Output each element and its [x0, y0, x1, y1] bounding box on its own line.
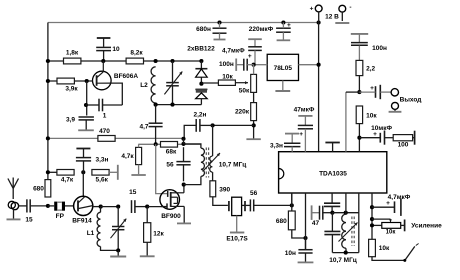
node 470 row at rail: [46, 136, 50, 140]
IF transformer tuning arrow: [203, 153, 220, 172]
ground under 12к: [140, 242, 155, 256]
resistor 2,2: [356, 60, 363, 75]
svg-text:3,9: 3,9: [66, 117, 75, 124]
IF transformer primary winding: [201, 148, 205, 176]
capacitor 56 feedback: [166, 147, 190, 181]
wire gate1 to BF900: [147, 206, 167, 208]
svg-text:10к: 10к: [386, 229, 396, 235]
node drain junction: [182, 183, 186, 187]
label 220к: [235, 108, 250, 115]
svg-text:220к: 220к: [235, 108, 250, 115]
label 3,9к: [65, 86, 78, 93]
svg-text:L2: L2: [140, 82, 148, 89]
wire input row: [18, 205, 27, 207]
ground of E10,7S: [230, 216, 244, 233]
svg-text:4,7к: 4,7к: [61, 177, 74, 184]
wire BF914 collector up: [82, 172, 84, 196]
svg-text:BF914: BF914: [72, 218, 92, 225]
svg-text:2,2: 2,2: [366, 66, 375, 73]
svg-text:4,7к: 4,7к: [121, 153, 134, 160]
svg-text:56: 56: [166, 162, 174, 169]
connector Выход ground side: [389, 102, 402, 111]
capacitor 3,3н at IC pin: [270, 142, 300, 151]
capacitor 3,3н RF amp: [76, 157, 109, 173]
transistor Q1 BF606A: [93, 61, 139, 90]
label 10,7 МГц first IF: [219, 162, 247, 169]
svg-text:47мкФ: 47мкФ: [294, 107, 315, 114]
varicap diode VD2 BB122: [195, 89, 207, 104]
wire 2,2 to output node: [358, 76, 360, 93]
capacitor 220мкФ polarized: [249, 22, 291, 40]
capacitor 10: [96, 46, 120, 61]
wire AGC to switch: [372, 257, 405, 261]
svg-text:TDA1035: TDA1035: [319, 171, 347, 178]
node tuning line to IF transformer: [211, 123, 215, 127]
node osc output junction top: [181, 137, 185, 141]
capacitor 56 to IC input: [250, 190, 292, 211]
ground under 220мкФ cap: [277, 39, 291, 41]
svg-text:10н: 10н: [285, 250, 296, 257]
label 100: [398, 142, 409, 149]
svg-text:220мкФ: 220мкФ: [249, 26, 274, 33]
wire 680 bottom to bypass node: [292, 230, 306, 238]
svg-text:+: +: [373, 131, 377, 138]
capacitor 15 input: [25, 199, 48, 223]
wire 680 top to rail: [47, 179, 49, 181]
resistor 100: [393, 135, 412, 141]
svg-text:4,7мкФ: 4,7мкФ: [222, 48, 245, 55]
svg-text:12 В: 12 В: [325, 14, 339, 21]
wire base column down: [86, 81, 88, 116]
wire emitter to cap 1: [111, 83, 123, 105]
svg-text:50к: 50к: [239, 88, 250, 95]
wire BF900 drain up: [183, 185, 185, 193]
label 10,7 МГц quad: [329, 257, 357, 264]
svg-text:4,7: 4,7: [139, 123, 148, 130]
svg-text:Выход: Выход: [400, 96, 422, 103]
inductor L2: [140, 67, 155, 103]
ground of BF900 source: [177, 222, 191, 224]
potentiometer 50к: [251, 74, 257, 92]
wire IC pin to input node: [291, 193, 293, 205]
node tuning line junction: [252, 123, 256, 127]
wire left main rail vertical: [47, 23, 49, 181]
node collector row at rail: [46, 170, 50, 174]
wire emitter supply row: [48, 137, 184, 139]
label 8,2к: [130, 49, 143, 56]
terminal bar of 47мкФ cap: [298, 116, 312, 126]
transistor Q3 BF900 dual-gate MOSFET: [160, 190, 184, 220]
svg-text:BF606A: BF606A: [114, 73, 139, 80]
wire IC pin to audio column: [345, 92, 347, 152]
wire 12V rail down right side: [318, 23, 320, 152]
label 390: [219, 186, 230, 193]
wire BF900 source to ground: [183, 206, 185, 222]
svg-text:68к: 68к: [166, 148, 177, 155]
capacitor 3,9: [66, 117, 94, 130]
svg-text:680: 680: [276, 218, 287, 225]
node top rail to 12V junction: [317, 20, 321, 24]
svg-text:470: 470: [99, 128, 110, 135]
node base row at rail: [46, 79, 50, 83]
IC U1 TDA1035: [279, 152, 387, 193]
node 78L05 output junction: [252, 63, 256, 67]
svg-text:+: +: [287, 22, 291, 29]
node AGC pot junction: [370, 223, 374, 227]
label 2,2: [366, 66, 375, 73]
label 680: [33, 185, 44, 192]
node 78L05 input on rail: [317, 63, 321, 67]
node between varicaps: [199, 82, 203, 86]
filter FP: [48, 202, 74, 221]
terminal bar of 47 cap: [312, 205, 320, 220]
resistor 390: [210, 181, 216, 197]
potentiometer 10к gain: [372, 219, 442, 235]
node quad coil top: [344, 211, 348, 215]
connector Выход: [391, 89, 421, 104]
svg-text:+: +: [310, 6, 314, 13]
node varcap top: [170, 59, 174, 63]
capacitor 100н at regulator output: [219, 59, 254, 71]
terminal bar after 100: [413, 131, 415, 145]
svg-text:10к: 10к: [366, 113, 377, 120]
capacitor at quad tank pin: [324, 193, 340, 213]
node 220мкФ cap on rail: [281, 20, 285, 24]
svg-text:3,3н: 3,3н: [96, 157, 109, 164]
potentiometer 50к wiper arrow: [235, 81, 248, 84]
IF transformer secondary winding: [210, 125, 213, 172]
filter Z1 E10,7S: [226, 197, 250, 242]
svg-text:10: 10: [112, 46, 120, 53]
wire L1 bottom: [101, 247, 119, 251]
svg-text:47: 47: [312, 220, 320, 227]
transistor Q2 BF914: [72, 196, 93, 224]
wire IC pin bypass column: [305, 193, 307, 250]
wire 680 top pin: [291, 193, 293, 211]
label 680 second: [276, 218, 287, 225]
wire 390 to filter: [213, 197, 228, 206]
node audio output junction: [357, 90, 361, 94]
wire 220к to ground node: [253, 121, 255, 139]
terminal +12V supply: [310, 5, 340, 22]
wire 2,2н left to osc feedback node: [184, 125, 196, 138]
label 1,8к: [66, 49, 79, 56]
terminal bar of 3,3н cap: [76, 149, 90, 158]
wire tank bottom row: [156, 104, 202, 106]
wire RF amp collector row left: [48, 171, 57, 173]
svg-text:+: +: [248, 53, 252, 60]
svg-text:680: 680: [33, 185, 44, 192]
terminal -12V return with ground: [335, 4, 351, 23]
node BF914 collector junction: [81, 170, 85, 174]
node collector BF606A on bias row: [101, 59, 105, 63]
resistor 68к: [161, 142, 178, 148]
switch mute: [403, 244, 418, 262]
ground under 220к: [246, 138, 260, 140]
svg-text:3,3н: 3,3н: [270, 142, 283, 149]
capacitor 1: [86, 99, 122, 120]
svg-text:12к: 12к: [153, 231, 164, 238]
resistor 1,8к: [64, 58, 81, 64]
label 50к: [239, 88, 250, 95]
resistor 4,7к collector: [57, 170, 74, 176]
svg-text:BF900: BF900: [161, 213, 181, 220]
resistor 4,7к gate2 bias: [121, 144, 141, 174]
connector antenna input: [8, 201, 18, 209]
node input at 680 bias: [46, 204, 50, 208]
inductor L1: [87, 207, 101, 247]
capacitor 47мкФ at IC pin: [294, 107, 315, 152]
wire primary top: [184, 144, 201, 148]
svg-text:5,6к: 5,6к: [96, 177, 109, 184]
svg-text:10к: 10к: [222, 73, 233, 80]
terminal bar of 10 cap: [97, 38, 111, 47]
svg-text:15: 15: [129, 189, 137, 196]
svg-text:3,9к: 3,9к: [65, 86, 78, 93]
wire quad tank top: [332, 212, 358, 214]
wire pot bottom to 220к: [253, 92, 255, 102]
capacitor 15 coupling: [129, 189, 147, 213]
label 10к AGC: [379, 245, 390, 252]
ground of input tank: [110, 250, 126, 256]
node quad coil bottom: [344, 251, 348, 255]
capacitor 4,7 series: [139, 105, 162, 145]
svg-text:E10,7S: E10,7S: [226, 236, 248, 243]
node L2 top: [154, 59, 158, 63]
svg-text:+: +: [299, 131, 303, 138]
node AGC 4,7мкФ junction: [370, 205, 374, 209]
node bypass junction: [303, 236, 307, 240]
quad detector coil: [342, 214, 346, 253]
svg-text:390: 390: [219, 186, 230, 193]
label 5,6к: [96, 177, 109, 184]
svg-text:4,7мкФ: 4,7мкФ: [388, 194, 411, 201]
wire base row: [48, 80, 93, 82]
wire mixer gate2 row: [138, 143, 201, 145]
terminal bar of 4,7мкФ cap: [248, 39, 262, 47]
node input tank top: [116, 205, 120, 209]
node base-capacitor junction: [84, 103, 88, 107]
svg-text:2хВВ122: 2хВВ122: [187, 46, 215, 53]
node deemphasis junction: [357, 136, 361, 140]
resistor 680 input load: [288, 211, 295, 230]
svg-text:10,7 МГц: 10,7 МГц: [329, 257, 357, 264]
svg-text:56: 56: [250, 190, 258, 197]
wire 10к to deemphasis node: [358, 124, 360, 152]
svg-text:1,8к: 1,8к: [66, 49, 79, 56]
ground of 78L05: [275, 81, 290, 92]
node 68к right: [181, 142, 185, 146]
terminal bar after 5,6к: [117, 165, 119, 180]
node 680n cap on rail: [217, 20, 221, 24]
label 4,7к: [61, 177, 74, 184]
resistor 10к tuning: [218, 80, 235, 85]
capacitor 47 quad: [312, 206, 333, 227]
svg-text:10к: 10к: [379, 245, 390, 252]
terminal bar of 100н cap: [236, 59, 244, 71]
capacitor 4,7мкФ polarized: [222, 47, 262, 65]
resistor 220к: [251, 103, 257, 121]
svg-text:+: +: [386, 200, 390, 207]
svg-text:+: +: [370, 85, 374, 92]
wire output node to IC pin: [346, 91, 360, 93]
wire top supply rail: [48, 22, 319, 24]
quad coil core: [352, 217, 354, 247]
node tank bottom left: [154, 103, 158, 107]
ground under 10н: [298, 261, 314, 263]
varicap diode VD1 BB122: [187, 46, 215, 84]
terminal bar of 3,3н IC cap: [285, 131, 303, 144]
capacitor output coupling: [359, 85, 391, 99]
variable capacitor input tank: [111, 207, 127, 251]
ground under 680н cap: [214, 39, 226, 41]
node emitter L1 junction: [99, 205, 103, 209]
resistor 3,9к: [57, 78, 74, 84]
terminal bar of 100н audio cap: [351, 34, 368, 43]
svg-text:-: -: [349, 4, 351, 11]
wire AGC pin column: [371, 193, 373, 240]
svg-text:Усиление: Усиление: [411, 222, 442, 229]
svg-text:8,2к: 8,2к: [130, 49, 143, 56]
wire quad tank bottom: [332, 252, 358, 254]
node AGC wiper junction: [370, 217, 374, 221]
svg-text:100: 100: [398, 142, 409, 149]
svg-text:1: 1: [103, 112, 107, 119]
wire 78L05 output left: [254, 64, 268, 66]
IF transformer core: [206, 148, 208, 178]
svg-text:100н: 100н: [372, 45, 387, 52]
resistor 680 bias: [45, 180, 51, 197]
wire gate2 down to BF900: [156, 144, 168, 193]
capacitor 680н: [196, 23, 226, 39]
resistor 5,6к: [92, 170, 109, 176]
wire quad tank right leg: [358, 193, 360, 253]
resistor 470: [98, 136, 115, 142]
svg-text:FP: FP: [56, 213, 65, 220]
wire pot top to output node: [253, 65, 255, 75]
ground under 4,7к: [131, 174, 145, 176]
node gate2 row junction: [154, 142, 158, 146]
resistor 10к AGC: [369, 239, 376, 256]
variable capacitor of oscillator tank: [164, 61, 182, 105]
wire 78L05 input from rail: [299, 64, 319, 66]
wire 390 top: [212, 172, 214, 181]
capacitor 10мкФ: [359, 125, 393, 145]
wire 12к top: [146, 207, 148, 223]
resistor 10к output: [356, 106, 362, 124]
wire varicap mid to 10к: [201, 82, 218, 84]
wire emitter BF914 out: [93, 206, 101, 208]
capacitor in quad tank left leg: [324, 213, 340, 253]
svg-text:15: 15: [25, 216, 33, 223]
resistor 12к: [144, 223, 151, 243]
label 10к: [222, 73, 233, 80]
capacitor 2,2н: [194, 112, 213, 132]
wire 5,6к to terminal: [109, 171, 117, 173]
label 12к: [153, 231, 164, 238]
node bias row at left rail: [46, 59, 50, 63]
wire L1 top row: [101, 206, 119, 208]
resistor 8,2к: [126, 58, 143, 64]
wire quad coil pin: [345, 193, 347, 214]
node base junction: [85, 79, 89, 83]
svg-text:10,7 МГц: 10,7 МГц: [219, 162, 247, 169]
svg-text:10мкФ: 10мкФ: [371, 125, 392, 132]
node IC input junction: [290, 203, 294, 207]
wire 68к junction vertical: [183, 139, 185, 144]
node input tank bottom: [116, 248, 120, 252]
ground under 3,9 cap: [78, 129, 94, 131]
svg-text:100н: 100н: [219, 61, 234, 68]
label 68к: [166, 148, 177, 155]
capacitor 10н bypass: [285, 238, 313, 262]
wire tuning line: [213, 124, 254, 126]
terminal bar on IC pin: [325, 143, 339, 152]
ground of antenna connector: [7, 209, 21, 219]
wire bias row: [48, 60, 202, 62]
wire primary bottom: [184, 176, 201, 184]
node varicap diode top: [199, 59, 203, 63]
svg-text:2,2н: 2,2н: [194, 112, 207, 119]
node quad tank top left: [330, 211, 334, 215]
node gate1 junction: [145, 205, 149, 209]
node varcap bottom: [170, 103, 174, 107]
svg-text:78L05: 78L05: [274, 65, 293, 72]
quad tank tuning arrow: [339, 223, 358, 242]
label 470: [99, 128, 110, 135]
svg-text:680н: 680н: [196, 26, 211, 33]
capacitor 4,7мкФ AGC: [372, 194, 411, 216]
antenna: [8, 178, 19, 200]
svg-text:L1: L1: [87, 230, 95, 237]
capacitor 100н audio: [351, 43, 387, 61]
label 10к output: [366, 113, 377, 120]
regulator U2 78L05: [267, 54, 298, 80]
